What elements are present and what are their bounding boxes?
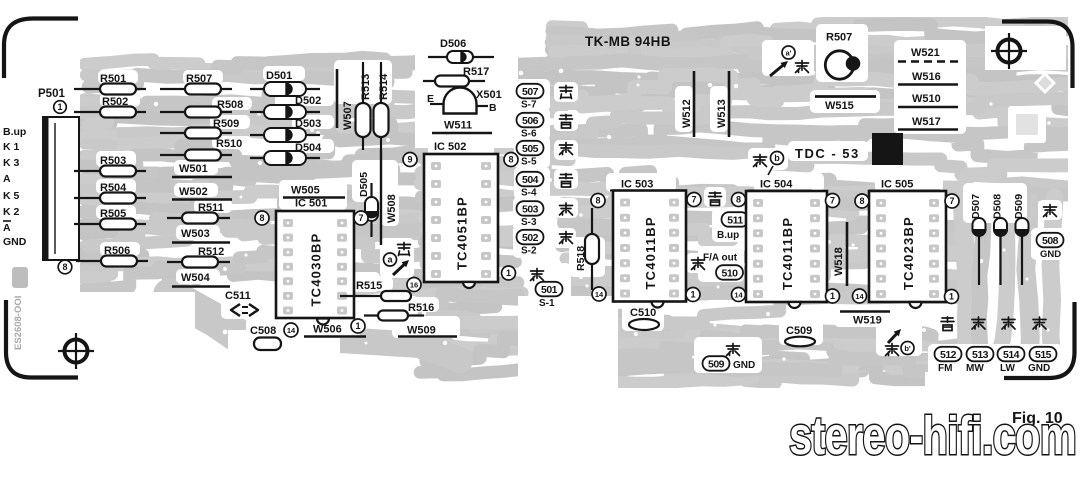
board id E52608-001	[12, 267, 28, 350]
svg-text:D501: D501	[266, 70, 292, 82]
svg-text:W519: W519	[853, 315, 882, 327]
terminal 504	[517, 172, 544, 199]
svg-text:8: 8	[259, 213, 264, 223]
svg-text:507: 507	[522, 86, 539, 98]
pin 1 marker P501	[54, 101, 67, 114]
svg-text:IC 504: IC 504	[760, 179, 793, 191]
pin 1 IC503	[686, 288, 700, 302]
svg-text:W508: W508	[386, 194, 398, 223]
svg-text:W504: W504	[181, 272, 211, 284]
jumper wire W511	[432, 120, 492, 134]
resistor R518	[575, 208, 599, 290]
label K5	[3, 190, 20, 202]
wire color mark black1	[1044, 205, 1057, 217]
svg-text:E: E	[427, 93, 434, 105]
svg-text:B.up: B.up	[3, 126, 26, 138]
terminal 501	[536, 282, 563, 309]
pin 8 IC501	[255, 211, 269, 225]
svg-text:R502: R502	[102, 96, 128, 108]
resistor R502	[74, 96, 146, 118]
pin 14 IC503	[592, 287, 606, 301]
svg-text:IC 505: IC 505	[881, 179, 913, 191]
capacitor C511	[225, 290, 258, 316]
svg-text:506: 506	[522, 115, 539, 127]
resistor R501	[74, 73, 146, 95]
terminal 514	[998, 347, 1025, 374]
board corner top-right	[1002, 22, 1073, 89]
diode D501	[250, 70, 320, 97]
watermark stereo-hifi.com	[789, 406, 1076, 466]
diode D503	[250, 118, 321, 143]
svg-text:7: 7	[358, 213, 363, 223]
resistor R516	[364, 302, 434, 321]
svg-text:513: 513	[972, 349, 989, 361]
board corner bottom-right	[1004, 302, 1075, 378]
resistor R513	[356, 62, 373, 150]
title TK-MB 94HB	[585, 34, 671, 49]
svg-text:R509: R509	[213, 118, 239, 130]
terminal 510	[716, 265, 743, 280]
svg-text:TC4030BP: TC4030BP	[309, 233, 324, 307]
terminal 515	[1028, 347, 1057, 374]
svg-text:508: 508	[1042, 235, 1059, 247]
wire color mark	[560, 174, 573, 188]
pin 1 IC505	[945, 290, 959, 304]
svg-text:R516: R516	[408, 302, 434, 314]
IC U501 TC4030BP	[276, 211, 354, 325]
resistor R511	[167, 202, 230, 224]
svg-text:W518: W518	[833, 247, 845, 276]
diode D507	[970, 194, 987, 285]
jumper wire W508	[381, 150, 398, 245]
fiducial crosshair top-right	[991, 33, 1027, 69]
svg-text:D506: D506	[440, 38, 466, 50]
label K1	[3, 141, 20, 153]
IC U505 label	[869, 179, 940, 191]
svg-text:503: 503	[522, 203, 539, 215]
svg-text:R511: R511	[198, 202, 224, 214]
wire color mark	[560, 115, 573, 129]
svg-text:D507: D507	[970, 194, 982, 219]
svg-text:W503: W503	[181, 228, 210, 240]
svg-text:TC4011BP: TC4011BP	[780, 217, 795, 290]
svg-text:K 1: K 1	[3, 141, 20, 153]
svg-text:A: A	[3, 173, 11, 185]
svg-text:S-2: S-2	[521, 246, 537, 257]
svg-text:B: B	[489, 102, 497, 114]
diode D509	[1013, 194, 1030, 285]
svg-text:W501: W501	[179, 163, 208, 175]
svg-text:R508: R508	[217, 99, 243, 111]
terminal 512	[935, 347, 962, 374]
label B.up	[3, 126, 26, 138]
resistor R506	[76, 245, 148, 267]
svg-text:K 5: K 5	[3, 190, 20, 202]
svg-text:W511: W511	[444, 120, 472, 132]
svg-text:W517: W517	[912, 116, 941, 128]
jumper wire W515	[815, 97, 876, 113]
svg-text:8: 8	[736, 195, 741, 205]
svg-text:R503: R503	[100, 155, 126, 167]
terminal 503	[517, 201, 544, 228]
terminal 513	[966, 347, 994, 374]
svg-text:GND: GND	[1040, 249, 1061, 260]
svg-text:C510: C510	[630, 307, 656, 319]
pin 14 IC504	[732, 288, 746, 302]
resistor R508	[160, 99, 243, 118]
svg-text:S-5: S-5	[521, 157, 537, 168]
pin 7 IC501	[354, 211, 368, 225]
svg-text:R512: R512	[198, 246, 224, 258]
IC U503 TC4011BP	[613, 191, 686, 308]
jumper wire W518	[833, 222, 847, 286]
jumper wire W517	[898, 116, 958, 130]
resistor R515	[340, 280, 411, 301]
svg-text:515: 515	[1035, 349, 1052, 361]
svg-text:9: 9	[407, 155, 412, 165]
resistor R505	[74, 208, 146, 230]
terminal 509	[703, 356, 756, 371]
svg-text:C511: C511	[225, 290, 251, 302]
svg-text:b: b	[774, 153, 780, 163]
diode D505	[358, 172, 379, 237]
IC U505 TC4023BP	[869, 191, 946, 308]
svg-text:R513: R513	[360, 74, 372, 100]
svg-text:R505: R505	[100, 208, 126, 220]
jumper wire W504	[172, 272, 230, 287]
svg-text:W510: W510	[912, 93, 941, 105]
svg-text:B.up: B.up	[717, 230, 739, 241]
svg-text:K 3: K 3	[3, 157, 20, 169]
diode D506	[428, 38, 494, 64]
svg-text:8: 8	[62, 262, 67, 272]
jumper wire W510	[898, 93, 958, 107]
svg-text:GND: GND	[1028, 363, 1050, 374]
pin 7 IC504	[826, 194, 840, 208]
svg-text:LW: LW	[1000, 363, 1016, 374]
svg-text:W509: W509	[407, 325, 436, 337]
svg-text:W512: W512	[681, 99, 693, 128]
svg-text:R507: R507	[826, 32, 852, 44]
svg-text:511: 511	[727, 214, 743, 226]
svg-text:R510: R510	[216, 138, 242, 150]
svg-text:D502: D502	[295, 95, 321, 107]
caption Fig. 10	[1012, 410, 1063, 427]
pin 8 marker P501	[58, 260, 72, 274]
jumper wire W507	[337, 69, 354, 130]
pin 8 IC504	[732, 193, 746, 207]
wire color mark brown	[531, 269, 544, 281]
terminal 508	[1037, 233, 1064, 260]
wire color mark brown2	[692, 258, 705, 270]
connector P501	[38, 88, 79, 260]
svg-text:D508: D508	[992, 194, 1004, 219]
svg-text:IC 503: IC 503	[621, 179, 653, 191]
terminal 506	[517, 113, 544, 140]
resistor R510	[160, 138, 242, 161]
jumper wire W502	[172, 186, 232, 200]
jumper wire W501	[172, 163, 232, 177]
svg-text:TC4011BP: TC4011BP	[643, 216, 658, 289]
svg-text:D505: D505	[358, 172, 370, 197]
jumper wire W505	[283, 185, 345, 198]
pin 8 IC503	[591, 194, 605, 208]
svg-text:TC4051BP: TC4051BP	[455, 196, 470, 270]
pin 14 IC501	[284, 323, 298, 337]
svg-text:8: 8	[595, 196, 600, 206]
wire color mark black2	[727, 344, 740, 356]
svg-text:S-3: S-3	[521, 217, 537, 228]
wire color mark	[560, 143, 573, 155]
resistor R517	[423, 66, 489, 87]
resistor R509	[160, 118, 239, 139]
svg-text:514: 514	[1003, 349, 1020, 361]
svg-text:1: 1	[690, 290, 695, 300]
svg-text:F/A out: F/A out	[703, 253, 738, 264]
svg-text:14: 14	[287, 326, 296, 335]
svg-text:505: 505	[522, 143, 539, 155]
svg-text:7: 7	[949, 196, 954, 206]
svg-text:C509: C509	[786, 325, 812, 337]
svg-text:W515: W515	[825, 100, 854, 112]
diode D502	[250, 95, 321, 120]
svg-text:14: 14	[595, 290, 604, 299]
pin 1 IC501	[351, 319, 365, 333]
copper traces	[80, 20, 1072, 384]
IC U502 TC4051BP	[424, 154, 498, 288]
svg-text:501: 501	[541, 284, 558, 296]
IC U504 TC4011BP	[746, 191, 827, 308]
pin 1 IC502	[502, 266, 516, 280]
jumper wire W509	[398, 325, 457, 337]
label K2	[3, 206, 20, 218]
svg-text:S-7: S-7	[521, 100, 537, 111]
jumper wire W512	[681, 71, 694, 137]
svg-text:R515: R515	[356, 280, 382, 292]
svg-text:14: 14	[734, 291, 743, 300]
svg-text:W513: W513	[716, 99, 728, 128]
wire color mark red	[972, 317, 985, 329]
IC U504 label	[748, 179, 812, 191]
node a-prime marker	[770, 46, 809, 76]
IC U503 label	[610, 179, 672, 191]
board corner bottom-left	[6, 300, 78, 378]
node b marker	[754, 152, 784, 176]
pin 8 IC505	[855, 194, 869, 208]
board corner top-left	[4, 19, 78, 79]
svg-text:8: 8	[508, 155, 513, 165]
wire color mark black	[1033, 317, 1046, 329]
wire color mark	[560, 203, 573, 215]
capacitor R507	[825, 32, 860, 80]
svg-text:510: 510	[721, 267, 738, 279]
svg-text:W505: W505	[291, 185, 320, 197]
svg-text:GND: GND	[733, 360, 755, 371]
svg-text:W516: W516	[912, 71, 941, 83]
svg-text:16: 16	[410, 281, 418, 290]
svg-text:a': a'	[786, 49, 792, 58]
svg-text:stereo-hifi.com: stereo-hifi.com	[789, 406, 1076, 466]
svg-text:1: 1	[506, 268, 511, 278]
svg-text:ES2608-OOI: ES2608-OOI	[13, 296, 24, 350]
fiducial crosshair bottom-left	[58, 333, 94, 369]
jumper wire W519	[840, 312, 890, 327]
terminal 505	[517, 141, 544, 168]
jumper wire W503	[172, 228, 230, 243]
svg-text:GND: GND	[3, 236, 27, 248]
svg-text:b': b'	[904, 344, 911, 353]
node a marker	[384, 243, 411, 276]
label GND	[3, 236, 27, 248]
label F/A out	[703, 253, 738, 264]
svg-text:1: 1	[355, 321, 360, 331]
wire color mark brown	[1002, 317, 1015, 329]
svg-text:D503: D503	[295, 118, 321, 130]
svg-text:1: 1	[57, 102, 62, 112]
diode D508	[992, 194, 1009, 285]
svg-text:R501: R501	[100, 73, 126, 85]
svg-text:R514: R514	[378, 73, 390, 100]
svg-text:D504: D504	[295, 142, 322, 154]
jumper wire W513	[716, 71, 729, 137]
svg-text:IC 501: IC 501	[295, 198, 327, 210]
IC U501 label	[283, 198, 350, 212]
svg-text:W506: W506	[313, 324, 342, 336]
jumper wire W516	[898, 71, 958, 85]
pin 14 IC505	[853, 289, 867, 303]
pin 9 IC502	[403, 153, 417, 167]
crystal TDC-53	[795, 133, 903, 165]
label A	[3, 173, 11, 185]
svg-text:TDC - 53: TDC - 53	[795, 146, 860, 161]
terminal 502	[517, 230, 544, 257]
svg-text:502: 502	[522, 232, 539, 244]
svg-text:TK-MB 94HB: TK-MB 94HB	[585, 34, 671, 49]
resistor R514	[374, 62, 391, 150]
svg-text:P501: P501	[38, 88, 65, 100]
svg-text:W507: W507	[342, 101, 354, 130]
svg-text:A: A	[3, 222, 11, 234]
svg-text:7: 7	[830, 196, 835, 206]
svg-text:7: 7	[691, 195, 696, 205]
svg-text:IC 502: IC 502	[434, 141, 466, 153]
svg-text:509: 509	[708, 358, 725, 370]
jumper wire W521	[898, 47, 958, 62]
svg-text:TC4023BP: TC4023BP	[901, 216, 916, 290]
wire color mark	[560, 232, 573, 244]
svg-text:1: 1	[830, 291, 835, 301]
diode D504	[250, 142, 322, 166]
wire color mark orange	[941, 317, 954, 331]
pin 7 IC505	[945, 194, 959, 208]
svg-text:K 2: K 2	[3, 206, 20, 218]
wire color mark orange	[709, 192, 722, 206]
svg-text:512: 512	[940, 349, 957, 361]
capacitor C508	[250, 325, 281, 350]
label K3	[3, 157, 20, 169]
svg-text:D509: D509	[1013, 194, 1025, 219]
svg-text:R517: R517	[463, 66, 489, 78]
transistor X501	[427, 88, 502, 115]
pin 16 IC502	[407, 278, 421, 292]
svg-text:R506: R506	[104, 245, 130, 257]
resistor R507	[160, 73, 232, 95]
svg-text:W521: W521	[911, 47, 940, 59]
svg-text:S-1: S-1	[539, 298, 555, 309]
svg-text:R504: R504	[100, 182, 127, 194]
resistor R503	[74, 155, 146, 177]
terminal 511	[717, 212, 749, 241]
svg-text:X501: X501	[476, 89, 502, 101]
resistor R504	[74, 182, 146, 204]
svg-text:S-4: S-4	[521, 188, 537, 199]
svg-text:C508: C508	[250, 325, 276, 337]
pin 1 IC504	[826, 289, 840, 303]
svg-text:W502: W502	[179, 186, 208, 198]
resistor R512	[167, 246, 230, 268]
svg-text:14: 14	[855, 292, 864, 301]
IC U502 label	[424, 141, 487, 154]
capacitor C510	[629, 307, 659, 330]
svg-text:R507: R507	[186, 73, 212, 85]
svg-text:R518: R518	[575, 246, 587, 271]
pin 7 IC503	[687, 193, 701, 207]
pin 8 IC502	[504, 153, 518, 167]
label A-bar	[3, 221, 11, 234]
svg-text:S-6: S-6	[521, 129, 537, 140]
svg-text:1: 1	[949, 292, 954, 302]
svg-text:MW: MW	[966, 363, 984, 374]
jumper wire W506	[304, 324, 366, 337]
svg-text:8: 8	[859, 196, 864, 206]
capacitor C509	[785, 325, 815, 346]
svg-text:FM: FM	[938, 363, 952, 374]
terminal 507	[517, 84, 544, 111]
svg-text:504: 504	[522, 174, 539, 186]
wire color mark	[560, 86, 573, 99]
node b-prime marker	[886, 329, 915, 356]
